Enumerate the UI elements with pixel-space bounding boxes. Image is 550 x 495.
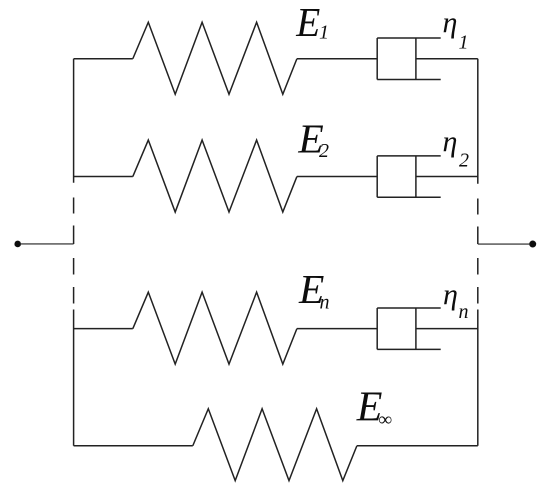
label eta-n [443, 278, 469, 323]
dashpot eta-n [377, 308, 441, 349]
node left terminal [14, 241, 21, 248]
spring Einf [193, 409, 357, 481]
wire branch-n piston rod [416, 328, 478, 330]
spring E2 [133, 140, 297, 212]
svg-text:η: η [443, 125, 458, 158]
wire right bus lower solid [477, 309, 479, 445]
svg-text:1: 1 [459, 32, 469, 54]
wire right bus upper solid [477, 59, 479, 184]
wire branch1 piston rod [416, 58, 478, 60]
wire branch2 middle [297, 176, 377, 178]
wire left bus dashed middle [73, 197, 75, 303]
svg-text:∞: ∞ [379, 409, 393, 430]
svg-text:n: n [320, 291, 330, 313]
wire left bus upper solid [73, 59, 75, 183]
label E2 [297, 116, 329, 162]
label E1 [295, 0, 329, 45]
wire right bus dashed middle [477, 198, 479, 303]
label eta2 [443, 125, 470, 172]
dashpot eta2 [377, 156, 441, 197]
label eta1 [443, 6, 469, 54]
wire branch-n left [74, 328, 133, 330]
label Einf [356, 385, 392, 431]
svg-text:1: 1 [319, 22, 329, 44]
wire left terminal lead [20, 243, 74, 245]
svg-text:2: 2 [319, 140, 329, 162]
dashpot eta1 [377, 38, 441, 79]
wire right terminal lead [478, 243, 531, 245]
wire branch2 left [74, 176, 133, 178]
wire left bus lower solid [73, 309, 75, 445]
svg-text:n: n [459, 301, 469, 323]
svg-text:η: η [443, 6, 458, 39]
node right terminal [529, 241, 536, 248]
label En [298, 266, 330, 313]
wire branch1 middle [297, 58, 377, 60]
wire branch-n middle [297, 328, 377, 330]
spring En [133, 292, 297, 364]
wire bottom branch left [74, 445, 193, 447]
svg-text:η: η [443, 278, 458, 311]
spring E1 [133, 22, 297, 94]
svg-text:E: E [295, 0, 320, 45]
wire branch1 left [74, 58, 133, 60]
svg-text:2: 2 [459, 149, 469, 171]
wire bottom branch right [357, 445, 478, 447]
wire branch2 piston rod [416, 176, 478, 178]
